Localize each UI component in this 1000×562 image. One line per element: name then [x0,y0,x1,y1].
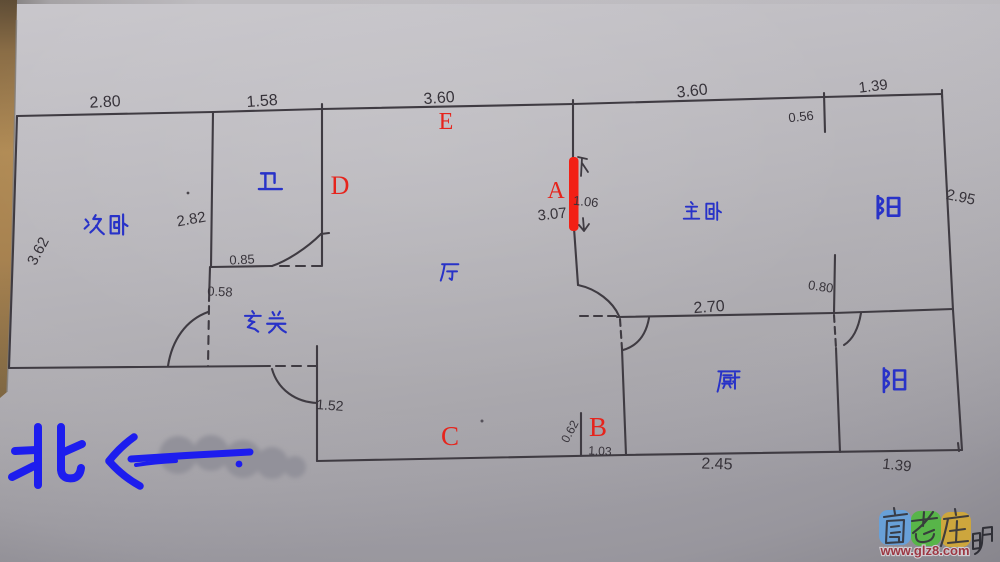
wall bathroom left [211,112,213,267]
wall entry bottom dashed opening [276,365,317,367]
tick 0.80 divider above [834,255,835,313]
wall C-left vertical [316,346,318,461]
svg-text:3.60: 3.60 [676,81,709,101]
red bar bottom mark [579,218,589,231]
wall top exterior [17,94,942,116]
svg-text:0.56: 0.56 [788,108,815,126]
door arc balcony [844,313,861,345]
label 卫 [259,173,282,189]
wall kitchen left dashed [620,319,622,349]
watermark char 庄 [941,509,968,546]
label 阳 top [878,196,899,218]
tick B [580,413,582,455]
tick bottom-right corner [958,443,959,451]
wall bathroom right [321,104,329,266]
wall kitchen left solid [622,349,626,455]
wall bottom exterior [317,450,962,461]
svg-text:3.60: 3.60 [423,89,455,108]
tick top-right corner [941,90,943,97]
watermark char 老 [912,512,937,542]
watermark char 髙 [884,508,907,543]
wall divider dashed [834,315,836,348]
door arc 1.52 [272,369,317,403]
svg-text:A: A [547,178,565,204]
wall bathroom bottom dashed [280,265,322,267]
north arrow shaft double stroke [136,461,176,465]
wall entry dashed vertical [208,306,209,366]
svg-text:B: B [589,412,607,442]
label 北 [12,427,82,485]
wall left exterior [9,116,17,368]
svg-text:C: C [441,421,459,451]
tile yellow [941,512,971,547]
tick 0.56 [824,93,825,132]
label 主卧 [684,202,700,219]
svg-text:0.85: 0.85 [229,251,255,267]
north arrow shaft [131,452,250,459]
wall below bathroom solid [209,267,210,301]
north arrow head [109,437,140,486]
wall divider solid [836,348,840,452]
wall hall-bedroom vertical [573,100,578,285]
wall bathroom bottom solid [211,266,272,267]
svg-text:2.70: 2.70 [693,298,725,317]
gray smudge blobs [159,435,306,479]
wall entry bottom solid [9,366,270,368]
label 次卧 [85,215,104,234]
svg-text:2.45: 2.45 [701,455,733,473]
svg-text:1.58: 1.58 [246,92,278,111]
svg-text:www.glz8.com: www.glz8.com [879,543,969,558]
tile blue [879,510,911,545]
door arc entry [168,312,208,366]
svg-text:E: E [439,109,454,135]
red bar A [569,157,579,231]
blue dot [236,461,243,468]
label 厨 [718,371,740,391]
svg-text:1.06: 1.06 [572,193,599,211]
door dashed bedroom [580,315,617,317]
svg-text:0.58: 0.58 [207,283,233,299]
label 玄关 [245,311,261,331]
svg-text:D: D [331,171,350,200]
wall kitchen top [617,309,953,317]
svg-text:1.03: 1.03 [588,443,612,458]
red bar top mark [578,157,588,176]
svg-text:3.07: 3.07 [537,205,568,225]
paper edge shadow line [7,20,17,392]
door arc bedroom [578,285,619,316]
svg-text:1.39: 1.39 [858,76,889,96]
door arc bathroom [272,234,321,266]
watermark char 吧 [973,527,992,554]
tile green [911,511,941,546]
wood table edge strip [0,0,17,398]
speck dot 2 [481,420,484,423]
wall right exterior [942,94,962,450]
label 厅 [441,264,459,280]
door arc kitchen [623,318,649,350]
svg-text:1.39: 1.39 [881,456,912,476]
label 阳 bottom [884,368,905,392]
speck dot 1 [187,192,190,195]
svg-text:2.80: 2.80 [89,93,121,112]
top edge shading [0,0,1000,4]
svg-text:1.52: 1.52 [316,396,345,414]
